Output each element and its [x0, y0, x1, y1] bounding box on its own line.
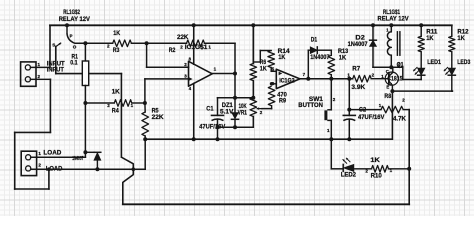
junction Q1 collector	[389, 65, 393, 69]
svg-text:R7: R7	[352, 65, 360, 72]
connector INPUT	[21, 62, 36, 86]
relay contact RL1G$2 lever	[67, 34, 75, 44]
svg-text:1K: 1K	[457, 35, 465, 42]
svg-text:R10: R10	[371, 173, 382, 180]
wire R1 tap to R4	[85, 102, 114, 104]
junction R5 on mid rail	[143, 137, 147, 141]
resistor R10	[372, 166, 389, 173]
wire R6 bottom	[252, 81, 254, 98]
wire right column to GND	[408, 110, 410, 205]
wire Q1 emitter to mid rail	[391, 91, 393, 139]
diode D1	[310, 47, 317, 54]
wire comparator output	[300, 78, 353, 80]
wire LED1 to row	[420, 75, 422, 79]
svg-text:1K: 1K	[339, 55, 347, 62]
svg-text:47UF/16V: 47UF/16V	[358, 114, 385, 121]
switch SW1	[328, 109, 331, 111]
wire R14 to comparator pin 5	[270, 68, 272, 72]
wire LOAD pin1	[31, 156, 86, 158]
transistor Q1	[385, 72, 398, 85]
resistor R8	[381, 106, 403, 113]
wiper VR1	[257, 108, 263, 110]
junction SW1 on mid rail	[329, 137, 333, 141]
svg-text:3.9K: 3.9K	[351, 84, 365, 91]
resistor R9	[268, 86, 275, 106]
wire relay O contact to R3	[75, 42, 113, 44]
junction zener row center	[233, 96, 237, 100]
svg-text:22K: 22K	[152, 114, 164, 121]
svg-text:E: E	[386, 84, 389, 89]
resistor R5	[142, 112, 149, 136]
svg-text:LOAD: LOAD	[43, 150, 61, 157]
junction pin6-R9	[270, 82, 274, 86]
wire R5 column to GND row	[144, 139, 146, 169]
comparator IC1G2	[276, 69, 300, 88]
wire feedback drop	[234, 43, 236, 73]
wire C2 riser	[348, 79, 350, 116]
wire VCC to R6	[252, 25, 254, 63]
wire D1 riser	[307, 50, 309, 78]
wire D2 column	[372, 25, 374, 40]
svg-text:BUTTON: BUTTON	[298, 102, 323, 109]
resistor R14	[268, 51, 275, 68]
junction R4-R5-pin3	[143, 101, 147, 105]
junction R10 right column	[407, 167, 411, 171]
svg-text:1N4007: 1N4007	[72, 156, 83, 162]
svg-text:1N4007: 1N4007	[348, 41, 368, 48]
junction VCC-relay pole	[65, 23, 69, 27]
svg-text:1K: 1K	[260, 66, 267, 73]
svg-text:C1: C1	[206, 106, 213, 113]
wire op-amp V+ pin 8	[193, 25, 195, 64]
svg-text:22K: 22K	[177, 34, 189, 41]
wire op-amp output	[212, 73, 235, 75]
wire R1 junction to D3	[85, 151, 94, 153]
potentiometer VR1	[250, 98, 257, 117]
wire C1 to mid rail	[217, 127, 219, 139]
svg-text:C1815: C1815	[387, 76, 403, 83]
svg-text:R4: R4	[112, 108, 119, 115]
svg-text:R3: R3	[113, 47, 120, 54]
svg-text:LED2: LED2	[341, 171, 356, 178]
wire VCC left drop to INPUT pin 1	[49, 25, 51, 67]
wire S contact net	[55, 47, 57, 74]
svg-text:Q1: Q1	[397, 62, 404, 69]
junction VCC D2	[371, 23, 375, 27]
connector LOAD	[21, 151, 36, 175]
resistor R6	[250, 64, 257, 81]
resistor R4	[114, 100, 132, 107]
capacitor C1	[212, 114, 224, 116]
wire R10 to right column	[389, 168, 410, 170]
junction C1 on mid rail	[216, 137, 220, 141]
wire R3 to R2	[131, 42, 186, 44]
svg-text:C: C	[386, 69, 389, 74]
resistor R7	[353, 75, 372, 82]
junction output-feedback	[233, 72, 237, 76]
junction GND row jog	[132, 167, 136, 171]
wire junction down to R5	[144, 103, 146, 112]
svg-text:4.7K: 4.7K	[393, 115, 406, 122]
led LED3	[448, 68, 455, 75]
wire VCC top rail	[50, 24, 452, 26]
svg-text:1K: 1K	[113, 30, 120, 37]
wire VCC to R11	[420, 25, 422, 36]
capacitor C2	[343, 114, 355, 116]
junction zener row right	[251, 96, 255, 100]
wire R5 bottom to rail	[144, 136, 146, 139]
svg-text:LED3: LED3	[457, 59, 470, 66]
wire LED3 to row corner	[451, 75, 453, 91]
wire INPUT pin2 loop	[49, 79, 51, 132]
junction D3 bottom	[95, 167, 99, 171]
resistor R1	[82, 61, 88, 86]
junction emitter LED row	[390, 89, 394, 93]
junction VCC R6 column	[251, 23, 255, 27]
svg-text:R9: R9	[279, 98, 286, 105]
svg-text:0.1: 0.1	[70, 59, 78, 66]
resistor R11	[418, 36, 424, 52]
resistor R13	[328, 55, 335, 74]
relay contact RL1G$2 pole	[66, 25, 68, 33]
junction R1 top	[83, 41, 87, 45]
wire zener bottom row	[218, 126, 254, 128]
svg-text:IC1G$1: IC1G$1	[185, 44, 208, 51]
resistor R2	[187, 40, 205, 47]
svg-text:1K: 1K	[426, 35, 434, 42]
svg-text:1K: 1K	[278, 54, 285, 61]
resistor R3	[113, 40, 132, 47]
svg-text:RELAY 12V: RELAY 12V	[378, 16, 410, 23]
svg-text:LED1: LED1	[427, 59, 441, 66]
wire SW1 bottom	[330, 120, 332, 139]
wire R1 bottom	[84, 86, 86, 153]
wire op-amp V- pin 4	[193, 83, 195, 139]
junction C1 bottom	[216, 125, 220, 129]
svg-text:1K: 1K	[370, 157, 380, 164]
svg-text:R8: R8	[384, 93, 391, 100]
wire collector corner to LED1 row	[402, 67, 404, 79]
svg-text:1K: 1K	[112, 88, 120, 95]
wire R12 to LED3	[451, 52, 453, 68]
svg-text:VR1: VR1	[238, 110, 248, 117]
led LED1	[418, 68, 425, 75]
junction VCC coil	[389, 23, 393, 27]
wire to op-amp pin 2	[146, 43, 148, 67]
junction output-R7-C2	[347, 77, 351, 81]
wire SW1 to LED2	[330, 139, 332, 169]
svg-text:D1: D1	[311, 36, 318, 43]
junction VCC op-amp	[192, 23, 196, 27]
wire comparator pin 6	[272, 83, 277, 85]
diode D3	[94, 151, 101, 153]
wire LOAD pin2 GND row	[31, 168, 145, 170]
svg-text:O: O	[73, 45, 77, 50]
wire collector row	[373, 66, 403, 68]
led LED2	[342, 164, 344, 171]
junction C2 on mid rail	[347, 137, 351, 141]
wire R2 to feedback corner	[205, 42, 236, 44]
svg-text:S: S	[52, 43, 55, 48]
relay coil RL1G$1	[390, 25, 392, 32]
wire R7 to Q1 base	[371, 78, 389, 80]
junction R1-R4 tap	[83, 101, 87, 105]
junction C2-R8	[347, 108, 351, 112]
wire R4 to junction	[132, 102, 145, 104]
wire DZ1 top	[234, 98, 236, 113]
svg-text:5.1V: 5.1V	[220, 109, 234, 116]
junction output-R13-SW1	[329, 77, 333, 81]
wire mid GND rail	[145, 138, 392, 140]
wire R14 top hook	[253, 61, 260, 63]
diode D2	[370, 39, 377, 41]
junction GND row left riser	[47, 167, 51, 171]
wire R11 to LED1	[420, 52, 422, 68]
op-amp IC1G$1	[189, 61, 213, 86]
svg-text:RELAY 12V: RELAY 12V	[59, 16, 91, 23]
wire zener row	[218, 97, 254, 99]
svg-text:R2: R2	[169, 47, 176, 54]
wire LED2 to R10	[354, 168, 372, 170]
wire R9 bottom to wiper	[271, 106, 273, 109]
junction output-D1 riser	[306, 77, 310, 81]
junction VCC R11	[419, 23, 423, 27]
wire R8 to right column	[403, 109, 409, 111]
wire output down to zener row	[234, 74, 236, 98]
svg-text:1N4007: 1N4007	[310, 54, 330, 61]
wire R13 bottom	[330, 75, 332, 79]
junction R3-R2 tap	[145, 41, 149, 45]
zener DZ1	[232, 113, 238, 119]
wire LED bottom row	[392, 90, 452, 92]
junction R1 bottom	[83, 150, 87, 154]
relay contact RL1G$2 S throw	[56, 43, 61, 47]
svg-text:IC1G2: IC1G2	[279, 78, 295, 85]
junction op-amp pin4 on mid rail	[192, 137, 196, 141]
wire VCC right corner to R12	[451, 25, 453, 36]
wire SW1 top	[330, 79, 332, 110]
wire GND bottom rail	[123, 203, 409, 205]
wire O net down to R1	[84, 43, 86, 61]
wire D1 to R13	[317, 49, 331, 51]
junction DZ1 bottom	[233, 125, 237, 129]
wire junction up to op-amp pin 3	[144, 79, 146, 103]
resistor R12	[449, 36, 455, 52]
svg-text:P: P	[70, 34, 73, 39]
wire C2 junction to R8	[349, 109, 381, 111]
